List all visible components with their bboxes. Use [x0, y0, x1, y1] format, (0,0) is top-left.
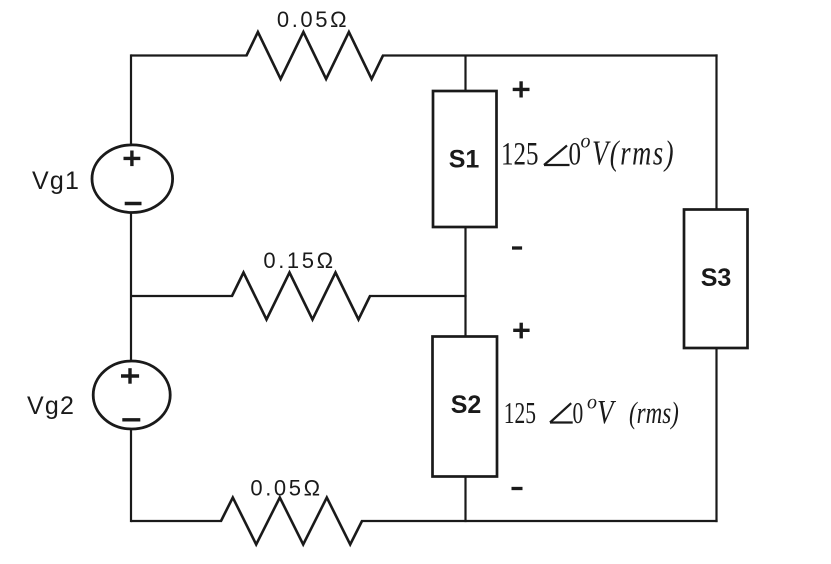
- svg-text:0.05Ω: 0.05Ω: [250, 476, 322, 501]
- svg-text:125: 125: [501, 136, 538, 172]
- svg-text:125: 125: [504, 395, 536, 430]
- wire center column upper lead (top rail to S1): [464, 56, 466, 93]
- svg-text:0.05Ω: 0.05Ω: [277, 7, 349, 32]
- polarity plus S1: [513, 81, 530, 97]
- wire top rail right segment: [382, 54, 718, 56]
- wire top rail left segment: [131, 54, 248, 56]
- wire middle rail right segment to center node: [369, 295, 467, 297]
- wire right rail lower (S3 to bottom rail): [715, 347, 717, 522]
- svg-text:0: 0: [569, 136, 581, 172]
- wire right rail upper (top rail to S3): [715, 54, 717, 210]
- wire left rail upper (top rail to Vg1): [130, 54, 132, 146]
- svg-text:S1: S1: [449, 146, 480, 174]
- value label 125 angle 0 V(rms) upper: [501, 131, 675, 173]
- wire middle rail left segment: [131, 295, 233, 297]
- svg-text:Vg1: Vg1: [32, 167, 80, 195]
- load S2: [433, 337, 498, 477]
- svg-text:V(rms): V(rms): [592, 133, 675, 172]
- wire left rail lower (Vg2 to bottom rail): [130, 428, 132, 522]
- resistor R2 0.15ohm middle zigzag: [232, 273, 370, 320]
- svg-text:o: o: [587, 392, 597, 414]
- wire bottom rail left segment: [131, 520, 222, 522]
- wire bottom rail right segment: [361, 520, 718, 522]
- source Vg1: [92, 145, 173, 213]
- polarity minus S1: [512, 246, 522, 249]
- wire center column lower lead (S2 to bottom rail): [464, 476, 466, 523]
- source Vg2: [93, 361, 170, 429]
- resistor R1 0.05ohm top zigzag: [247, 32, 384, 79]
- resistor R3 0.05ohm bottom zigzag: [221, 498, 362, 545]
- svg-text:0: 0: [573, 395, 584, 430]
- svg-text:o: o: [581, 131, 591, 153]
- polarity plus S2: [513, 323, 529, 339]
- wire center column mid lead (S1 to S2 through mid junction): [464, 226, 466, 338]
- load S3: [684, 210, 748, 349]
- svg-text:0.15Ω: 0.15Ω: [263, 248, 335, 273]
- load S1: [433, 91, 497, 227]
- value label 125 angle 0 V(rms) lower: [504, 392, 679, 431]
- polarity minus S2: [512, 487, 523, 490]
- wire left rail middle (Vg1 to Vg2 through mid junction): [130, 212, 132, 363]
- svg-text:Vg2: Vg2: [27, 392, 75, 420]
- svg-text:S3: S3: [701, 264, 732, 292]
- svg-text:(rms): (rms): [629, 396, 679, 430]
- svg-text:S2: S2: [451, 391, 482, 419]
